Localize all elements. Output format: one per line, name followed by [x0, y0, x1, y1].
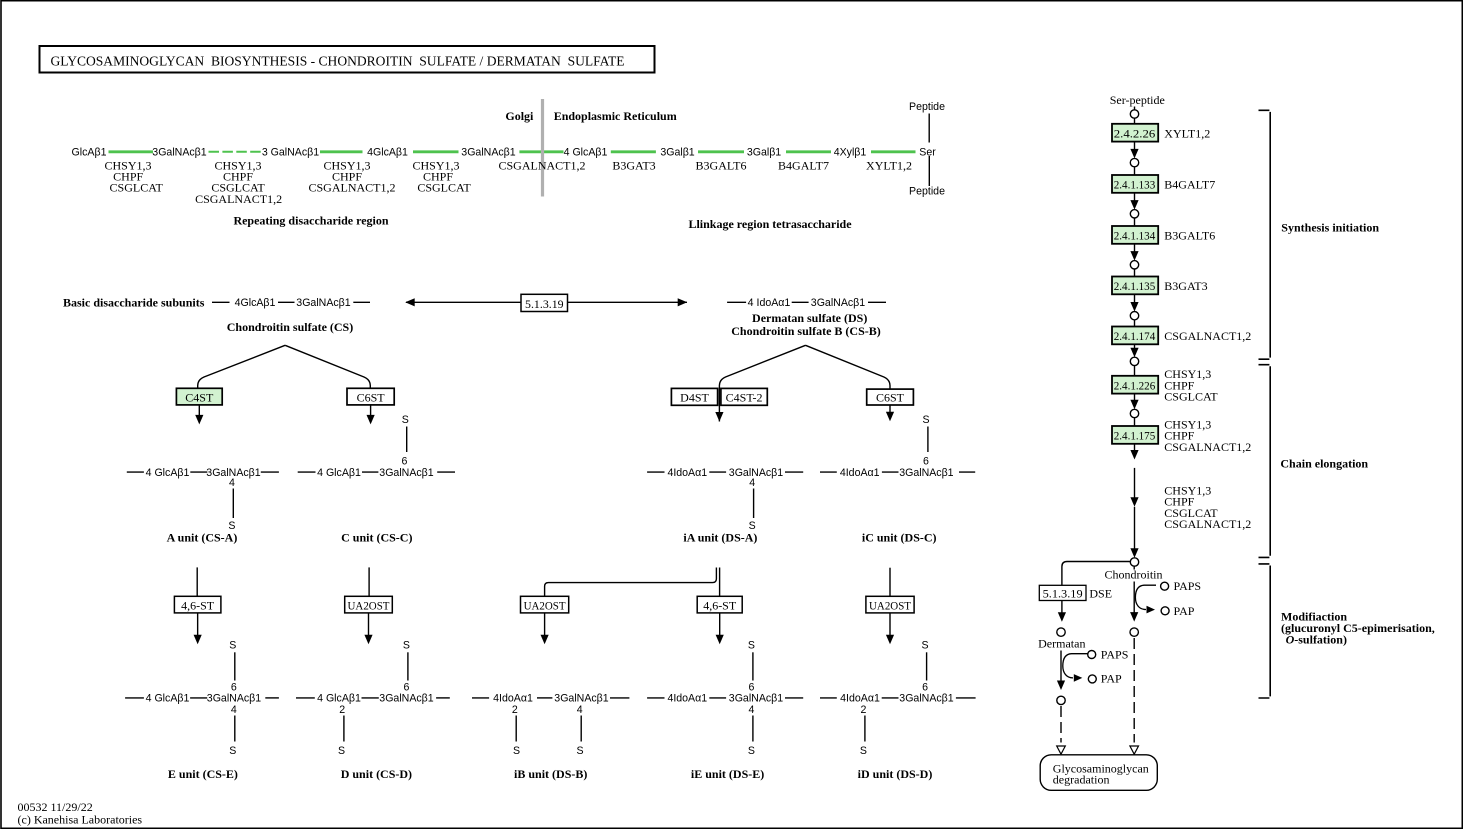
svg-text:4: 4 — [229, 477, 235, 489]
wire green glycan link 8 — [786, 150, 831, 153]
enzyme labels CHSY1,3/CHPF/CSGLCAT — [104, 159, 163, 195]
svg-text:CSGALNACT1,2: CSGALNACT1,2 — [195, 192, 282, 206]
wire green glycan link 5 — [519, 150, 563, 153]
svg-text:S: S — [229, 640, 236, 652]
svg-text:(c) Kanehisa Laboratories: (c) Kanehisa Laboratories — [18, 812, 143, 826]
svg-text:PAP: PAP — [1101, 672, 1122, 686]
svg-text:2.4.2.26: 2.4.2.26 — [1114, 126, 1156, 140]
enzyme box 2.4.2.26 (green) — [1112, 124, 1158, 142]
enzyme box D4ST — [671, 388, 717, 405]
svg-text:6: 6 — [748, 682, 754, 694]
svg-text:Peptide: Peptide — [909, 101, 945, 113]
arrow 4,6-ST down — [716, 613, 724, 644]
gene labels B3GAT3 — [1164, 279, 1207, 293]
wire Ser-peptide (bottom) — [928, 156, 930, 186]
wire green glycan link 9 — [871, 150, 916, 153]
svg-text:B3GAT3: B3GAT3 — [612, 159, 655, 173]
svg-text:S: S — [338, 745, 345, 757]
svg-text:3Galβ1: 3Galβ1 — [747, 147, 781, 159]
svg-text:Golgi: Golgi — [505, 109, 534, 123]
wire green glycan link 4 — [413, 150, 459, 153]
svg-text:4IdoAα1: 4IdoAα1 — [840, 467, 880, 479]
svg-text:6: 6 — [231, 682, 237, 694]
node Dermatan — [1057, 628, 1065, 636]
enzyme labels B3GALT6 — [696, 159, 747, 173]
svg-text:GlcAβ1: GlcAβ1 — [72, 147, 107, 159]
svg-text:PAP: PAP — [1174, 604, 1195, 618]
gene labels CHSY1,3/CHPF/CSGLCAT — [1164, 367, 1218, 404]
arrow from 2.4.1.134 down — [1130, 244, 1138, 261]
wire node to box 2.4.1.175 — [1134, 418, 1136, 426]
svg-text:UA2OST: UA2OST — [869, 598, 912, 612]
node Chondroitin — [1130, 558, 1138, 566]
arrow UA2OST down — [886, 613, 894, 644]
golgi/ER membrane divider bar — [541, 99, 544, 197]
enzyme box 2.4.1.133 (green) — [1112, 175, 1158, 193]
svg-text:Ser-peptide: Ser-peptide — [1110, 93, 1165, 107]
svg-text:6: 6 — [922, 682, 928, 694]
node glycan intermediate 4 — [1130, 261, 1138, 269]
enzyme labels B3GAT3 — [612, 159, 655, 173]
svg-text:CSGLCAT: CSGLCAT — [417, 181, 471, 195]
iA unit disaccharide chain — [647, 467, 803, 479]
bracket Synthesis initiation — [1259, 110, 1271, 359]
enzyme box 2.4.1.134 (green) — [1112, 226, 1158, 244]
arrow from 2.4.1.174 down — [1130, 344, 1138, 357]
enzyme box C4ST (green) — [176, 388, 222, 405]
svg-text:A unit (CS-A): A unit (CS-A) — [167, 531, 238, 545]
svg-text:3GalNAcβ1: 3GalNAcβ1 — [554, 693, 608, 705]
svg-text:Repeating disaccharide region: Repeating disaccharide region — [233, 214, 388, 228]
svg-text:S: S — [513, 745, 520, 757]
enzyme labels XYLT1,2 — [866, 159, 912, 173]
iA unit 4-O-sulfate — [749, 477, 756, 532]
node glycan intermediate 3 — [1130, 210, 1138, 218]
svg-text:2.4.1.226: 2.4.1.226 — [1114, 378, 1156, 392]
D unit 6-O-sulfate (top) — [403, 640, 410, 694]
node PAPS (dermatan) — [1088, 651, 1096, 659]
wire node to box 2.4.1.135 — [1134, 269, 1136, 277]
svg-text:3GalNAcβ1: 3GalNAcβ1 — [811, 297, 865, 309]
wire A unit to 4,6-ST — [196, 567, 198, 596]
svg-text:2: 2 — [339, 704, 345, 716]
node glycan intermediate 2 — [1130, 158, 1138, 166]
enzyme labels CSGALNACT1,2 — [498, 159, 585, 173]
E unit 4-O-sulfate (bottom) — [229, 704, 237, 757]
svg-text:PAPS: PAPS — [1101, 647, 1129, 661]
caption Modifiaction (glucuronyl C5-epimerisation, O-sulfation) — [1281, 610, 1435, 647]
wire Chondroitin to DSE box — [1062, 562, 1130, 586]
enzyme box C6ST — [347, 388, 394, 405]
pathway box Glycosaminoglycan degradation — [1040, 755, 1157, 791]
node PAPS (chondroitin) — [1161, 582, 1169, 590]
bracket Chain elongation — [1259, 365, 1271, 558]
iE unit disaccharide chain — [647, 693, 803, 705]
wire DS branch to C6ST (DS) — [806, 345, 891, 389]
svg-text:iB unit (DS-B): iB unit (DS-B) — [514, 767, 587, 781]
D unit disaccharide chain — [296, 693, 450, 705]
svg-text:4IdoAα1: 4IdoAα1 — [667, 693, 707, 705]
arrow from 2.4.2.26 down — [1130, 142, 1138, 159]
svg-text:3 GalNAcβ1: 3 GalNAcβ1 — [262, 147, 319, 159]
node PAP (chondroitin) — [1161, 607, 1169, 615]
svg-text:3GalNAcβ1: 3GalNAcβ1 — [899, 693, 953, 705]
DS disaccharide chain — [727, 297, 886, 309]
wire iC unit to UA2OST (iD branch) — [889, 568, 891, 597]
node glycan intermediate 7 — [1130, 409, 1138, 417]
svg-text:XYLT1,2: XYLT1,2 — [866, 159, 912, 173]
wire node to box 2.4.1.133 — [1134, 167, 1136, 175]
gene labels CSGALNACT1,2 — [1164, 329, 1251, 343]
svg-text:4 IdoAα1: 4 IdoAα1 — [748, 297, 791, 309]
D unit 2-O-sulfate (bottom) — [338, 704, 345, 757]
iB unit disaccharide chain — [472, 693, 629, 705]
svg-text:iE unit (DS-E): iE unit (DS-E) — [691, 767, 764, 781]
enzyme labels CHSY1,3/CHPF/CSGALNACT1,2 — [308, 159, 395, 195]
svg-text:5.1.3.19: 5.1.3.19 — [525, 297, 564, 311]
svg-text:D unit (CS-D): D unit (CS-D) — [341, 767, 412, 781]
svg-text:4GlcAβ1: 4GlcAβ1 — [235, 297, 276, 309]
wire green glycan link 6 — [611, 150, 656, 153]
svg-text:4 GlcAβ1: 4 GlcAβ1 — [564, 147, 608, 159]
svg-text:XYLT1,2: XYLT1,2 — [1164, 126, 1210, 140]
svg-text:UA2OST: UA2OST — [348, 598, 391, 612]
svg-text:4 GlcAβ1: 4 GlcAβ1 — [146, 693, 190, 705]
svg-text:degradation: degradation — [1053, 772, 1110, 786]
svg-text:S: S — [229, 745, 236, 757]
svg-text:3GalNAcβ1: 3GalNAcβ1 — [296, 297, 350, 309]
iD unit 6-O-sulfate (top) — [922, 640, 929, 694]
enzyme labels CHSY1,3/CHPF/CSGLCAT/CSGALNACT1,2 (elongation) — [1164, 483, 1251, 531]
svg-text:2: 2 — [860, 704, 866, 716]
node PAP (dermatan) — [1088, 675, 1096, 683]
enzyme box 2.4.1.175 (green) — [1112, 426, 1158, 444]
node glycan intermediate 5 — [1130, 312, 1138, 320]
bracket Modifiaction — [1259, 564, 1271, 698]
svg-text:4IdoAα1: 4IdoAα1 — [840, 693, 880, 705]
title box — [40, 46, 655, 73]
wire Ser-peptide to node — [1134, 107, 1136, 110]
enzyme box 2.4.1.174 (green) — [1112, 327, 1158, 345]
svg-text:CSGLCAT: CSGLCAT — [110, 181, 164, 195]
iB unit 2-O-sulfate — [512, 704, 520, 757]
C unit disaccharide chain — [298, 467, 455, 479]
svg-text:UA2OST: UA2OST — [524, 598, 567, 612]
svg-text:4Xylβ1: 4Xylβ1 — [834, 147, 867, 159]
iD unit 2-O-sulfate (bottom) — [860, 704, 867, 757]
iE unit 4-O-sulfate (bottom) — [748, 704, 755, 757]
svg-text:6: 6 — [401, 455, 407, 467]
arrow from 2.4.1.175 down — [1130, 444, 1138, 460]
svg-text:C6ST: C6ST — [876, 390, 905, 404]
cofactor arc PAPS->PAP (dermatan) — [1063, 654, 1088, 678]
arrow dermatan sulfation — [1057, 651, 1065, 691]
wire node to box 2.4.1.226 — [1134, 366, 1136, 376]
enzyme labels CHSY1,3/CHPF/CSGLCAT — [412, 159, 471, 195]
C unit 6-O-sulfate — [401, 414, 408, 468]
enzyme box 2.4.1.135 (green) — [1112, 277, 1158, 295]
iE unit 6-O-sulfate (top) — [748, 640, 755, 694]
gene labels XYLT1,2 — [1164, 126, 1210, 140]
svg-text:C6ST: C6ST — [357, 390, 386, 404]
wire node to box 2.4.2.26 — [1134, 118, 1136, 124]
enzyme box 2.4.1.226 (green) — [1112, 376, 1158, 394]
wire CS branch to C6ST — [285, 345, 370, 388]
E unit 6-O-sulfate (top) — [229, 640, 237, 694]
node glycan intermediate 1 — [1130, 110, 1138, 118]
svg-text:CSGALNACT1,2: CSGALNACT1,2 — [498, 159, 585, 173]
svg-text:Basic disaccharide subunits: Basic disaccharide subunits — [63, 296, 205, 310]
svg-text:4IdoAα1: 4IdoAα1 — [493, 693, 533, 705]
svg-text:iA unit (DS-A): iA unit (DS-A) — [683, 531, 757, 545]
wire peptide-Ser — [928, 114, 930, 143]
svg-text:6: 6 — [923, 455, 929, 467]
svg-text:S: S — [576, 745, 583, 757]
gene labels CHSY1,3/CHPF/CSGALNACT1,2 — [1164, 417, 1251, 454]
svg-text:Dermatan: Dermatan — [1038, 636, 1085, 650]
svg-text:PAPS: PAPS — [1174, 579, 1202, 593]
dashed link chondroitin to degradation — [1133, 638, 1135, 743]
svg-text:Llinkage region tetrasaccharid: Llinkage region tetrasaccharide — [688, 217, 852, 231]
svg-text:4: 4 — [749, 477, 755, 489]
enzyme box 5.1.3.19 — [521, 294, 568, 311]
svg-text:Ser: Ser — [919, 147, 936, 159]
enzyme box UA2OST at x=890 — [866, 596, 914, 613]
svg-text:C unit (CS-C): C unit (CS-C) — [341, 531, 412, 545]
svg-text:CSGALNACT1,2: CSGALNACT1,2 — [1164, 517, 1251, 531]
svg-text:3GalNAcβ1: 3GalNAcβ1 — [207, 693, 261, 705]
enzyme box UA2OST at x=368 — [345, 596, 393, 613]
iB unit 4-O-sulfate — [576, 704, 583, 757]
svg-text:O-sulfation): O-sulfation) — [1286, 633, 1347, 647]
svg-text:DSE: DSE — [1089, 586, 1112, 600]
svg-text:5.1.3.19: 5.1.3.19 — [1043, 586, 1083, 600]
svg-text:S: S — [860, 745, 867, 757]
arrow C6ST down — [367, 405, 375, 425]
wire C unit to UA2OST — [368, 567, 370, 596]
A unit disaccharide chain — [127, 467, 279, 479]
wire iA unit to UA2OST (iB branch) — [545, 568, 717, 597]
svg-text:iC unit (DS-C): iC unit (DS-C) — [862, 531, 937, 545]
svg-text:3GalNAcβ1: 3GalNAcβ1 — [379, 467, 433, 479]
arrow from 2.4.1.133 down — [1130, 193, 1138, 210]
node dermatan sulfate — [1057, 696, 1065, 704]
svg-text:CSGLCAT: CSGLCAT — [1164, 390, 1218, 404]
svg-text:C4ST-2: C4ST-2 — [726, 390, 763, 404]
svg-text:D4ST: D4ST — [680, 390, 709, 404]
arrowhead D4ST/C4ST-2 down — [715, 412, 723, 422]
svg-text:4,6-ST: 4,6-ST — [181, 598, 215, 612]
svg-text:4: 4 — [231, 704, 237, 716]
svg-text:B4GALT7: B4GALT7 — [778, 159, 829, 173]
svg-text:3GalNAcβ1: 3GalNAcβ1 — [729, 467, 783, 479]
CS disaccharide chain — [212, 297, 370, 309]
arrow chain elongation (repeat) — [1130, 468, 1138, 558]
svg-text:3GalNAcβ1: 3GalNAcβ1 — [152, 147, 206, 159]
arrow 4,6-ST down — [194, 613, 202, 644]
gene labels B3GALT6 — [1164, 229, 1215, 243]
svg-text:3GalNAcβ1: 3GalNAcβ1 — [461, 147, 515, 159]
svg-text:Chondroitin sulfate (CS): Chondroitin sulfate (CS) — [227, 320, 353, 334]
svg-text:3GalNAcβ1: 3GalNAcβ1 — [729, 693, 783, 705]
svg-text:Peptide: Peptide — [909, 186, 945, 198]
cofactor arc PAPS->PAP (chondroitin) — [1135, 585, 1156, 609]
svg-text:4 GlcAβ1: 4 GlcAβ1 — [146, 467, 190, 479]
svg-text:B3GALT6: B3GALT6 — [1164, 229, 1215, 243]
arrow C4ST down — [195, 405, 203, 425]
svg-text:S: S — [402, 414, 409, 426]
svg-text:4GlcAβ1: 4GlcAβ1 — [367, 147, 408, 159]
svg-text:Synthesis initiation: Synthesis initiation — [1281, 221, 1379, 235]
svg-text:3GalNAcβ1: 3GalNAcβ1 — [379, 693, 433, 705]
svg-text:CSGALNACT1,2: CSGALNACT1,2 — [308, 181, 395, 195]
arrow from 2.4.1.226 down — [1130, 394, 1138, 410]
svg-text:GLYCOSAMINOGLYCAN BIOSYNTHESI: GLYCOSAMINOGLYCAN BIOSYNTHESIS - CHONDRO… — [51, 55, 625, 70]
arrow UA2OST down — [541, 613, 549, 644]
enzyme box 4,6-ST at x=719 — [697, 596, 742, 613]
enzyme box 5.1.3.19 DSE — [1039, 585, 1086, 600]
svg-text:3GalNAcβ1: 3GalNAcβ1 — [899, 467, 953, 479]
svg-text:2.4.1.134: 2.4.1.134 — [1114, 229, 1156, 243]
svg-text:S: S — [748, 640, 755, 652]
dashed link dermatan to degradation — [1060, 706, 1062, 743]
svg-text:CSGALNACT1,2: CSGALNACT1,2 — [1164, 440, 1251, 454]
svg-text:B3GALT6: B3GALT6 — [696, 159, 747, 173]
arrow UA2OST down — [364, 613, 372, 644]
wire green glycan link 3 — [320, 150, 363, 153]
svg-text:4IdoAα1: 4IdoAα1 — [667, 467, 707, 479]
svg-text:3Galβ1: 3Galβ1 — [660, 147, 694, 159]
wire green glycan link 1 — [109, 150, 154, 153]
wire node to box 2.4.1.174 — [1134, 320, 1136, 327]
wire iA unit to 4,6-ST (iE branch) — [719, 568, 721, 597]
iC unit disaccharide chain — [820, 467, 975, 479]
svg-text:S: S — [922, 414, 929, 426]
enzyme box 4,6-ST at x=197 — [174, 596, 221, 613]
svg-text:B4GALT7: B4GALT7 — [1164, 178, 1215, 192]
node glycan intermediate 6 — [1130, 357, 1138, 365]
svg-text:4,6-ST: 4,6-ST — [703, 598, 737, 612]
enzyme box C4ST-2 — [721, 388, 767, 405]
wire Chondroitin down — [1133, 566, 1135, 569]
svg-text:Chain elongation: Chain elongation — [1280, 456, 1368, 470]
svg-text:S: S — [403, 640, 410, 652]
svg-text:2.4.1.135: 2.4.1.135 — [1114, 279, 1156, 293]
svg-text:CSGALNACT1,2: CSGALNACT1,2 — [1164, 329, 1251, 343]
iD unit disaccharide chain — [820, 693, 976, 705]
enzyme labels CHSY1,3/CHPF/CSGLCAT/CSGALNACT1,2 — [195, 159, 282, 206]
svg-text:C4ST: C4ST — [185, 390, 214, 404]
svg-text:2.4.1.174: 2.4.1.174 — [1114, 329, 1156, 343]
wire green glycan link 2 — [209, 151, 263, 153]
enzyme labels B4GALT7 — [778, 159, 829, 173]
svg-text:2: 2 — [512, 704, 518, 716]
arrow C6ST (DS) down — [886, 405, 894, 421]
svg-text:E unit (CS-E): E unit (CS-E) — [168, 767, 238, 781]
arrow Chondroitin sulfation — [1130, 582, 1138, 622]
svg-text:S: S — [748, 745, 755, 757]
wire green glycan link 7 — [698, 150, 744, 153]
svg-text:iD unit (DS-D): iD unit (DS-D) — [858, 767, 933, 781]
svg-text:2.4.1.175: 2.4.1.175 — [1114, 429, 1156, 443]
E unit disaccharide chain — [125, 693, 279, 705]
svg-text:4: 4 — [748, 704, 754, 716]
svg-text:4: 4 — [577, 704, 583, 716]
svg-text:4 GlcAβ1: 4 GlcAβ1 — [317, 693, 361, 705]
svg-text:Endoplasmic Reticulum: Endoplasmic Reticulum — [554, 109, 677, 123]
enzyme box UA2OST at x=544 — [521, 596, 569, 613]
enzyme box C6ST (DS) — [867, 389, 914, 405]
wire node to box 2.4.1.134 — [1134, 218, 1136, 226]
gene labels B4GALT7 — [1164, 178, 1215, 192]
svg-text:6: 6 — [403, 682, 409, 694]
wire CS branch to C4ST — [198, 345, 285, 388]
svg-text:2.4.1.133: 2.4.1.133 — [1114, 178, 1156, 192]
svg-text:B3GAT3: B3GAT3 — [1164, 279, 1207, 293]
A unit 4-O-sulfate — [228, 477, 235, 532]
arrow DSE to Dermatan — [1058, 601, 1066, 622]
arrow from 2.4.1.135 down — [1130, 294, 1138, 311]
node chondroitin sulfate — [1130, 628, 1138, 636]
svg-text:Chondroitin sulfate B (CS-B): Chondroitin sulfate B (CS-B) — [731, 324, 880, 338]
svg-text:S: S — [922, 640, 929, 652]
svg-text:4 GlcAβ1: 4 GlcAβ1 — [317, 467, 361, 479]
wire DS branch to D4ST/C4ST-2 — [719, 345, 805, 421]
iC unit 6-O-sulfate — [922, 414, 929, 468]
reversible arrow 5.1.3.19 — [405, 298, 687, 306]
